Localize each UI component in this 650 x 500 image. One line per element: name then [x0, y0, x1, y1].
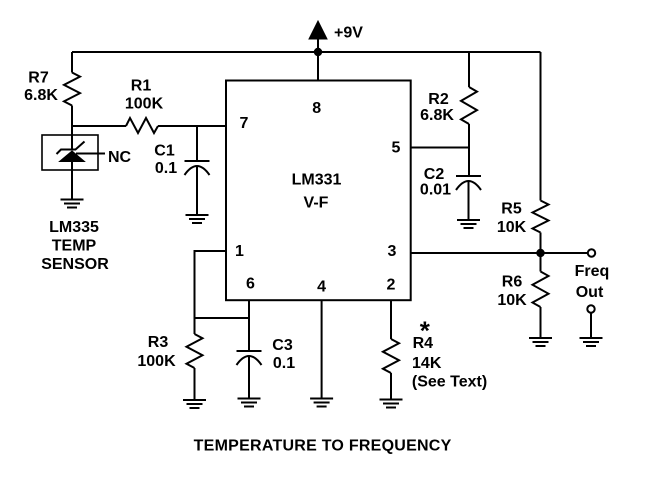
wire (LM335 to ground) — [71, 161, 73, 200]
svg-text:V-F: V-F — [304, 195, 329, 212]
ground (R6) — [529, 338, 552, 346]
node: return terminal — [587, 305, 594, 312]
svg-text:C1: C1 — [154, 143, 175, 160]
svg-text:2: 2 — [387, 277, 396, 294]
resistor R2 — [461, 87, 477, 124]
resistor R6 — [533, 272, 549, 308]
svg-text:R3: R3 — [148, 334, 169, 351]
ground (R4) — [380, 400, 403, 408]
ground (LM335) — [61, 200, 84, 208]
wire (R2 to C2) — [468, 124, 470, 176]
svg-text:R4: R4 — [413, 335, 434, 352]
resistor R1 — [126, 118, 158, 133]
svg-text:10K: 10K — [497, 292, 527, 309]
svg-text:R7: R7 — [28, 70, 49, 87]
ground (C1) — [186, 215, 209, 223]
wire (node to R1) — [72, 125, 126, 127]
svg-text:+9V: +9V — [334, 25, 363, 42]
wire (C2 to ground) — [468, 182, 470, 220]
ground (pin 4) — [310, 399, 333, 407]
svg-text:TEMP: TEMP — [52, 238, 97, 255]
svg-text:7: 7 — [240, 115, 249, 132]
svg-text:R5: R5 — [501, 201, 522, 218]
svg-text:LM331: LM331 — [292, 172, 342, 189]
wire (rail to R2) — [468, 52, 470, 87]
resistor R4 — [383, 339, 399, 373]
svg-text:LM335: LM335 — [49, 219, 99, 236]
wire (node to output) — [541, 252, 588, 254]
wire pin 1 loop — [195, 251, 250, 318]
wire (R3 to ground) — [194, 368, 196, 400]
ground (C2) — [457, 220, 480, 228]
svg-text:C3: C3 — [272, 337, 293, 354]
svg-text:Out: Out — [576, 284, 604, 301]
svg-text:100K: 100K — [125, 96, 164, 113]
svg-text:TEMPERATURE TO FREQUENCY: TEMPERATURE TO FREQUENCY — [194, 438, 452, 455]
node: output terminal — [588, 249, 595, 256]
wire (R6 to ground) — [540, 307, 542, 338]
resistor R5 — [533, 201, 549, 233]
svg-text:14K: 14K — [412, 355, 442, 372]
wire pin 5 — [411, 147, 469, 149]
capacitor C2 — [456, 175, 481, 177]
zener triangle — [60, 151, 85, 162]
svg-text:5: 5 — [392, 140, 401, 157]
wire pin 2 — [390, 300, 392, 339]
wire (pin 6 to C3) — [248, 318, 250, 351]
wire pin 4 — [321, 300, 323, 399]
node: freq out junction dot — [536, 249, 544, 257]
svg-text:0.01: 0.01 — [420, 182, 451, 199]
op-amp U1: LM331 IC box — [226, 81, 411, 301]
ground (C3) — [238, 399, 261, 407]
svg-text:R2: R2 — [428, 91, 449, 108]
wire (R1 to pin 7) — [158, 125, 225, 127]
svg-text:0.1: 0.1 — [273, 355, 295, 372]
wire — [317, 38, 319, 80]
svg-text:NC: NC — [108, 149, 132, 166]
svg-text:6: 6 — [246, 276, 255, 293]
wire (R5 to node) — [540, 233, 542, 254]
resistor R7 — [64, 73, 80, 106]
wire — [72, 51, 541, 53]
svg-text:6.8K: 6.8K — [24, 87, 58, 104]
zener cathode bar — [57, 142, 85, 155]
wire (return to ground) — [590, 313, 592, 338]
wire (C3 to ground) — [248, 357, 250, 399]
svg-text:R6: R6 — [502, 274, 523, 291]
wire (rail right down to R5) — [540, 52, 542, 201]
svg-text:SENSOR: SENSOR — [41, 256, 109, 273]
svg-text:1: 1 — [235, 243, 244, 260]
svg-text:Freq: Freq — [575, 263, 610, 280]
resistor R3 — [187, 334, 203, 368]
svg-text:100K: 100K — [137, 353, 176, 370]
wire (C1 branch) — [196, 126, 198, 161]
capacitor C3 — [237, 350, 262, 352]
wire pin 3 to node — [411, 252, 541, 254]
wire (R4 to ground) — [390, 373, 392, 400]
+9V supply arrow — [309, 21, 327, 39]
svg-text:4: 4 — [317, 279, 326, 296]
svg-text:6.8K: 6.8K — [420, 107, 454, 124]
wire (C1 to ground) — [196, 167, 198, 215]
node: +9V junction dot — [314, 48, 322, 56]
svg-text:10K: 10K — [497, 219, 527, 236]
wire NC stub — [76, 153, 105, 155]
wire pin 6 — [248, 300, 250, 318]
svg-text:8: 8 — [312, 100, 321, 117]
ground (output return) — [580, 338, 603, 346]
svg-text:3: 3 — [388, 243, 397, 260]
svg-text:R1: R1 — [131, 78, 152, 95]
wire (rail left down to R7) — [71, 52, 73, 73]
svg-text:C2: C2 — [424, 166, 445, 183]
svg-text:0.1: 0.1 — [155, 160, 177, 177]
sensor LM335 (zener in box) — [42, 135, 98, 170]
wire (node to R6) — [540, 253, 542, 272]
svg-text:(See Text): (See Text) — [412, 374, 487, 391]
ground (R3) — [183, 400, 206, 408]
wire (R7 to LM335) — [71, 106, 73, 150]
wire (loop to R3) — [194, 318, 196, 334]
capacitor C1 — [185, 160, 210, 162]
